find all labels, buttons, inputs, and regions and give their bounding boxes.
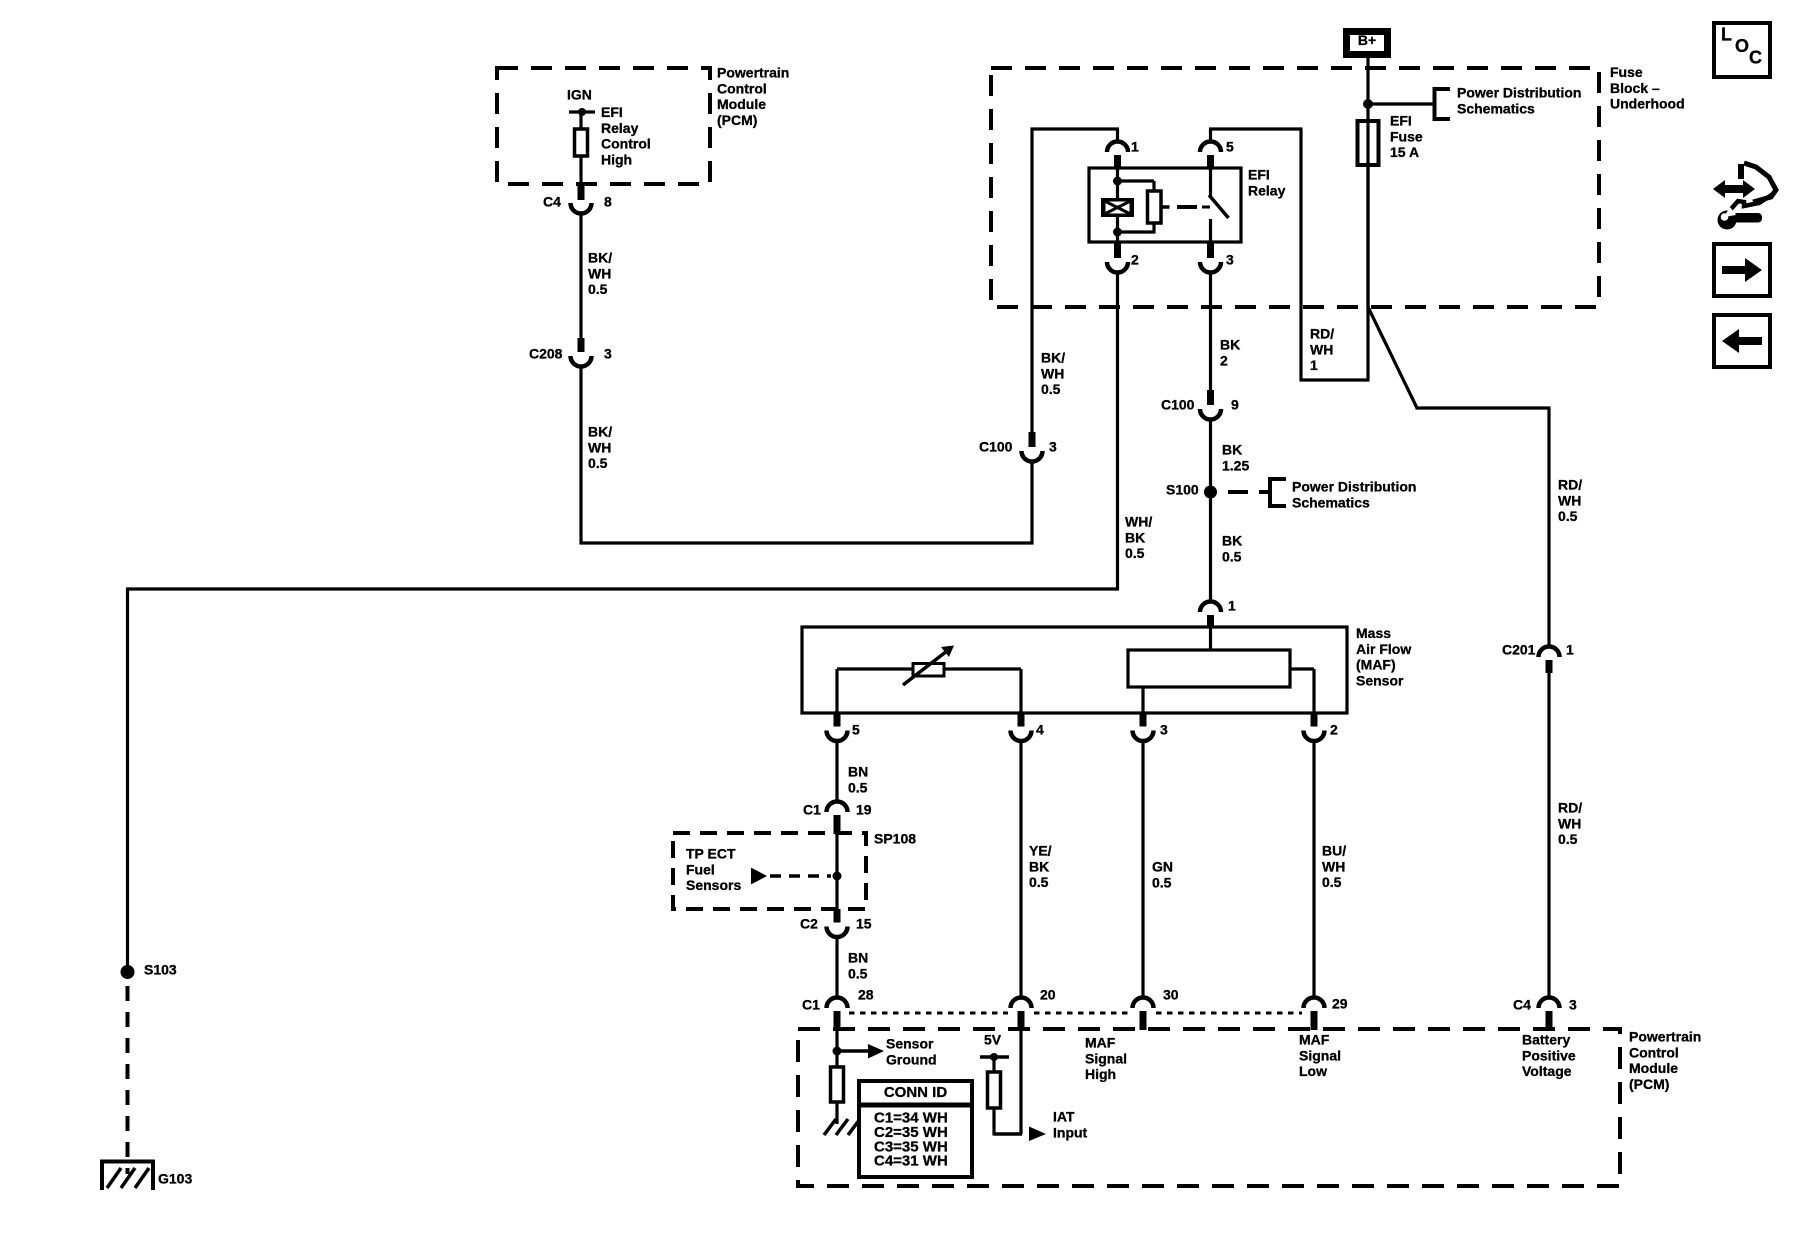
svg-text:Schematics: Schematics bbox=[1292, 494, 1370, 510]
svg-text:S100: S100 bbox=[1166, 482, 1199, 498]
svg-text:0.5: 0.5 bbox=[1322, 874, 1342, 890]
wire BU/WH 0.5 MAF pin2 to PCM pin 29 bbox=[1312, 741, 1315, 998]
svg-text:0.5: 0.5 bbox=[1222, 548, 1242, 564]
maf sensing element rectangle bbox=[1128, 650, 1290, 687]
svg-text:C1: C1 bbox=[802, 997, 820, 1013]
svg-text:Sensor: Sensor bbox=[1356, 672, 1404, 688]
svg-text:RD/: RD/ bbox=[1558, 800, 1582, 816]
svg-text:(PCM): (PCM) bbox=[717, 112, 757, 128]
svg-text:WH: WH bbox=[1558, 815, 1581, 831]
svg-text:30: 30 bbox=[1163, 987, 1179, 1003]
icon LOC navigation box bbox=[1714, 23, 1770, 77]
wire resistor to chassis ground bbox=[835, 1102, 838, 1124]
svg-text:0.5: 0.5 bbox=[1152, 874, 1172, 890]
svg-text:C2: C2 bbox=[800, 916, 818, 932]
resistor IAT pull-up (internal) bbox=[988, 1072, 1001, 1108]
svg-text:WH: WH bbox=[1322, 858, 1345, 874]
svg-text:GN: GN bbox=[1152, 859, 1173, 875]
svg-text:WH: WH bbox=[588, 265, 611, 281]
wire branch to Power Distribution reference bbox=[1368, 102, 1434, 105]
svg-text:15 A: 15 A bbox=[1390, 144, 1419, 160]
svg-text:1: 1 bbox=[1228, 598, 1236, 614]
pin relay terminal 2 bbox=[1114, 242, 1121, 258]
svg-text:MAF: MAF bbox=[1299, 1032, 1330, 1048]
svg-text:BK/: BK/ bbox=[588, 250, 612, 266]
wire WH/BK 0.5 from relay pin 2 bbox=[1116, 273, 1119, 590]
wire BK 0.5 S100 to MAF pin 1 bbox=[1209, 492, 1212, 602]
wire RD/WH 0.5 down to C201 bbox=[1547, 408, 1550, 647]
svg-text:Powertrain: Powertrain bbox=[1629, 1029, 1701, 1045]
svg-text:Powertrain: Powertrain bbox=[717, 65, 789, 81]
connector arc MAF pin 3 bbox=[1133, 731, 1154, 742]
splice S103 junction dot bbox=[121, 965, 135, 979]
wire MAF pin1 to sensing element bbox=[1209, 628, 1212, 650]
junction dot SP108 bbox=[833, 872, 842, 881]
component Mass Air Flow (MAF) Sensor box bbox=[802, 627, 1347, 713]
pin C208 male terminal bbox=[578, 338, 585, 352]
svg-text:C4=31 WH: C4=31 WH bbox=[874, 1153, 948, 1170]
wire RD/WH horizontal to right column bbox=[1416, 406, 1551, 409]
relay switch lower contact to pin 3 bbox=[1209, 219, 1212, 242]
ground chassis symbol (PCM internal) bbox=[824, 1119, 836, 1135]
svg-text:15: 15 bbox=[856, 916, 872, 932]
svg-text:EFI: EFI bbox=[601, 104, 623, 120]
svg-text:3: 3 bbox=[1049, 439, 1057, 455]
wire RD/WH 1 fuse to relay pin5 (U loop) bbox=[1366, 165, 1369, 380]
module Powertrain Control Module (PCM) top dashed box bbox=[497, 68, 710, 184]
svg-text:C100: C100 bbox=[979, 439, 1013, 455]
wire resistor to PCM edge bbox=[579, 156, 582, 185]
pin C100-9 male terminal bbox=[1207, 390, 1214, 405]
svg-text:0.5: 0.5 bbox=[588, 455, 608, 471]
svg-text:2: 2 bbox=[1330, 722, 1338, 738]
svg-text:1: 1 bbox=[1131, 139, 1139, 155]
svg-text:Signal: Signal bbox=[1085, 1050, 1127, 1066]
wire element to pin 2 (internal) bbox=[1290, 667, 1314, 670]
svg-text:0.5: 0.5 bbox=[1125, 545, 1145, 561]
pin MAF terminal 5 bbox=[834, 713, 841, 727]
pin C1-28 male terminal bbox=[834, 1011, 841, 1030]
connector C1 arc (pin 28) bbox=[827, 998, 848, 1009]
wire coil bottom to pin 2 bbox=[1116, 217, 1119, 242]
pin 29 male terminal bbox=[1311, 1011, 1318, 1030]
junction dot coil top bbox=[1113, 177, 1122, 186]
icon forward arrow box bbox=[1714, 244, 1770, 296]
svg-text:WH: WH bbox=[1041, 365, 1064, 381]
relay switch blade bbox=[1209, 195, 1229, 218]
relay coil (crossed box) symbol bbox=[1101, 198, 1134, 217]
svg-text:5V: 5V bbox=[984, 1032, 1002, 1048]
svg-text:9: 9 bbox=[1231, 397, 1239, 413]
reference dash from S100 bbox=[1228, 490, 1248, 494]
svg-text:BK/: BK/ bbox=[588, 424, 612, 440]
svg-text:0.5: 0.5 bbox=[588, 281, 608, 297]
svg-text:Underhood: Underhood bbox=[1610, 96, 1685, 112]
junction dot coil bottom bbox=[1113, 228, 1122, 237]
pin relay terminal 3 bbox=[1207, 242, 1214, 258]
svg-text:(MAF): (MAF) bbox=[1356, 657, 1396, 673]
svg-text:O: O bbox=[1735, 36, 1749, 56]
svg-text:BN: BN bbox=[848, 764, 868, 780]
pin C1-19 male terminal bbox=[834, 815, 841, 834]
connector C1 arc (pin 20) bbox=[1011, 998, 1032, 1009]
wire pin 20 internal drop bbox=[1019, 1030, 1022, 1134]
arrow IAT Input bbox=[1029, 1127, 1046, 1142]
svg-text:BN: BN bbox=[848, 950, 868, 966]
wire heater horizontal (internal) bbox=[837, 667, 1021, 670]
svg-text:0.5: 0.5 bbox=[1558, 508, 1578, 524]
svg-text:3: 3 bbox=[1569, 997, 1577, 1013]
wire dashed S103 to G103 bbox=[126, 986, 130, 1174]
svg-text:Air Flow: Air Flow bbox=[1356, 641, 1411, 657]
svg-text:BK: BK bbox=[1222, 533, 1242, 549]
svg-text:CONN ID: CONN ID bbox=[884, 1084, 948, 1101]
svg-text:Signal: Signal bbox=[1299, 1047, 1341, 1063]
svg-text:Block –: Block – bbox=[1610, 80, 1660, 96]
wire BK/WH 0.5 horizontal run to C100-3 bbox=[580, 541, 1034, 544]
wire armature bottom to coil bottom bbox=[1152, 223, 1155, 234]
wire heater left leg to pin 5 bbox=[835, 669, 838, 713]
svg-text:BK/: BK/ bbox=[1041, 350, 1065, 366]
wire sensor ground internal bbox=[835, 1030, 838, 1067]
splice pack SP108 dashed box bbox=[673, 833, 866, 909]
wire heater right leg to pin 4 bbox=[1019, 669, 1022, 713]
svg-text:Schematics: Schematics bbox=[1457, 100, 1535, 116]
svg-text:Input: Input bbox=[1053, 1124, 1088, 1140]
wire element to pin 3 (internal) bbox=[1141, 687, 1144, 713]
module Powertrain Control Module (PCM) bottom dashed box bbox=[798, 1029, 1620, 1186]
pin C4-3 male terminal bbox=[1546, 1011, 1553, 1030]
svg-text:C201: C201 bbox=[1502, 642, 1536, 658]
wire BK/WH 0.5 C4-8 to C208-3 bbox=[579, 214, 582, 340]
svg-text:EFI: EFI bbox=[1248, 167, 1270, 183]
arrow to TP ECT Fuel Sensors bbox=[751, 868, 767, 885]
wire riser to C100-3 connector bbox=[1030, 462, 1033, 544]
connector arc relay pin 3 bbox=[1200, 262, 1221, 273]
pin C100-3 male terminal bbox=[1029, 432, 1036, 447]
svg-text:C208: C208 bbox=[529, 346, 563, 362]
svg-text:0.5: 0.5 bbox=[1558, 831, 1578, 847]
connector C1 arc (pin 30) bbox=[1133, 998, 1154, 1009]
svg-text:1: 1 bbox=[1310, 357, 1318, 373]
wire relay pin1 loop (up-left-down) to C100-3 bbox=[1116, 129, 1119, 142]
junction dot sensor ground bbox=[833, 1047, 842, 1056]
svg-text:1.25: 1.25 bbox=[1222, 457, 1249, 473]
wire relay coil branch (internal) bbox=[1116, 169, 1119, 198]
relay linkage stub bbox=[1161, 205, 1170, 209]
svg-text:8: 8 bbox=[604, 194, 612, 210]
pin MAF terminal 4 bbox=[1018, 713, 1025, 727]
svg-text:Sensor: Sensor bbox=[886, 1036, 934, 1052]
svg-text:C: C bbox=[1749, 48, 1762, 68]
connector arc MAF pin 4 bbox=[1011, 731, 1032, 742]
connector arc MAF pin 1 bbox=[1200, 602, 1221, 613]
svg-text:BK: BK bbox=[1222, 442, 1242, 458]
power B+ battery terminal box bbox=[1347, 32, 1388, 55]
splice S100 junction dot bbox=[1204, 486, 1217, 499]
svg-text:Low: Low bbox=[1299, 1063, 1327, 1079]
svg-text:WH: WH bbox=[1558, 492, 1581, 508]
relay switch fixed contact from pin 5 bbox=[1209, 169, 1212, 196]
svg-text:4: 4 bbox=[1036, 722, 1044, 738]
svg-text:3: 3 bbox=[604, 346, 612, 362]
icon vehicle diagnostic (arrows, car, wrench) bbox=[1713, 180, 1755, 198]
wire BK/WH 0.5 C208-3 down bbox=[579, 367, 582, 544]
svg-text:BU/: BU/ bbox=[1322, 843, 1346, 859]
thermistor arrow bbox=[903, 651, 947, 685]
svg-text:0.5: 0.5 bbox=[848, 965, 868, 981]
junction dot at B+ branch bbox=[1363, 99, 1373, 109]
svg-text:C4: C4 bbox=[543, 194, 561, 210]
pin 30 male terminal bbox=[1140, 1011, 1147, 1030]
svg-text:20: 20 bbox=[1040, 987, 1056, 1003]
svg-text:YE/: YE/ bbox=[1029, 843, 1052, 859]
reference bracket Power Distribution (top) bbox=[1433, 87, 1437, 121]
svg-text:Fuel: Fuel bbox=[686, 861, 715, 877]
svg-text:5: 5 bbox=[1226, 139, 1234, 155]
wire RD/WH 0.5 C201 to PCM C4-3 bbox=[1547, 673, 1550, 998]
connector arc relay pin 2 bbox=[1107, 262, 1128, 273]
pin MAF terminal 2 bbox=[1311, 713, 1318, 727]
wire BK 1.25 C100-9 to S100 bbox=[1209, 420, 1212, 493]
svg-text:Control: Control bbox=[1629, 1044, 1679, 1060]
icon back arrow box bbox=[1714, 315, 1770, 367]
svg-text:G103: G103 bbox=[158, 1171, 192, 1187]
svg-text:B+: B+ bbox=[1358, 32, 1376, 48]
reference bracket Power Distribution (S100) bbox=[1259, 490, 1270, 494]
arrow Sensor Ground bbox=[837, 1049, 868, 1053]
connector arc MAF pin 2 bbox=[1304, 731, 1325, 742]
connector arc relay pin 1 bbox=[1107, 142, 1128, 153]
connector arc relay pin 5 bbox=[1200, 142, 1221, 153]
svg-text:Positive: Positive bbox=[1522, 1047, 1576, 1063]
svg-text:High: High bbox=[601, 151, 632, 167]
connector C1 arc (pin 19) bbox=[827, 802, 848, 813]
resistor EFI Relay Control High driver (inside PCM) bbox=[575, 129, 588, 156]
pin C2 male terminal bbox=[834, 909, 841, 923]
svg-text:Relay: Relay bbox=[601, 120, 639, 136]
svg-text:C1: C1 bbox=[803, 802, 821, 818]
connector C100 arc (pin 3) bbox=[1022, 451, 1043, 462]
pin MAF terminal 3 bbox=[1140, 713, 1147, 727]
relay linkage tick at blade bbox=[1202, 206, 1210, 209]
svg-text:L: L bbox=[1721, 25, 1732, 45]
wire YE/BK 0.5 MAF pin4 to PCM pin 20 bbox=[1019, 741, 1022, 998]
svg-text:Module: Module bbox=[717, 96, 766, 112]
svg-text:Mass: Mass bbox=[1356, 625, 1391, 641]
svg-text:WH: WH bbox=[1310, 341, 1333, 357]
node CONN ID table bbox=[859, 1081, 972, 1177]
svg-text:S103: S103 bbox=[144, 962, 177, 978]
svg-text:C4: C4 bbox=[1513, 997, 1531, 1013]
wire IGN to resistor bbox=[579, 112, 582, 129]
connector C201 arc bbox=[1539, 647, 1560, 658]
svg-text:Power Distribution: Power Distribution bbox=[1292, 479, 1416, 495]
svg-text:WH/: WH/ bbox=[1125, 514, 1152, 530]
svg-text:IGN: IGN bbox=[567, 87, 592, 103]
svg-text:TP ECT: TP ECT bbox=[686, 846, 736, 862]
svg-text:3: 3 bbox=[1226, 252, 1234, 268]
svg-text:SP108: SP108 bbox=[874, 831, 916, 847]
svg-text:High: High bbox=[1085, 1066, 1116, 1082]
pin PCM C4 male terminal bbox=[578, 184, 585, 200]
svg-text:EFI: EFI bbox=[1390, 113, 1412, 129]
svg-text:Control: Control bbox=[601, 136, 651, 152]
ground G103 symbol bbox=[100, 1160, 104, 1191]
svg-text:Module: Module bbox=[1629, 1060, 1678, 1076]
pin 20 male terminal bbox=[1018, 1011, 1025, 1030]
relay linkage dashed bbox=[1177, 205, 1197, 209]
svg-text:Fuse: Fuse bbox=[1390, 128, 1423, 144]
node IGN tick and junction bbox=[569, 110, 595, 113]
svg-text:Control: Control bbox=[717, 80, 767, 96]
svg-text:19: 19 bbox=[856, 802, 872, 818]
svg-text:WH: WH bbox=[588, 439, 611, 455]
thermistor body (variable resistor) bbox=[913, 664, 944, 677]
svg-text:MAF: MAF bbox=[1085, 1035, 1116, 1051]
svg-text:RD/: RD/ bbox=[1310, 326, 1334, 342]
svg-text:Power Distribution: Power Distribution bbox=[1457, 85, 1581, 101]
wire BK 2 from relay pin 3 bbox=[1209, 273, 1212, 391]
module Fuse Block - Underhood dashed box bbox=[991, 68, 1599, 307]
pin relay terminal 1 bbox=[1114, 155, 1121, 169]
resistor sensor ground (internal) bbox=[831, 1067, 844, 1102]
svg-text:1: 1 bbox=[1566, 642, 1574, 658]
connector C4 arc bbox=[571, 203, 592, 214]
wire GN 0.5 MAF pin3 to PCM pin 30 bbox=[1141, 741, 1144, 998]
svg-text:C100: C100 bbox=[1161, 397, 1195, 413]
wire relay pin5 loop (up-right-down) bbox=[1209, 129, 1212, 142]
wire coil top to armature bbox=[1118, 179, 1155, 182]
svg-text:Fuse: Fuse bbox=[1610, 64, 1643, 80]
wire BN 0.5 MAF pin5 to C1-19 bbox=[835, 741, 838, 802]
svg-text:0.5: 0.5 bbox=[1029, 874, 1049, 890]
svg-text:29: 29 bbox=[1332, 996, 1348, 1012]
wire through SP108 bbox=[835, 834, 838, 909]
svg-text:IAT: IAT bbox=[1053, 1109, 1075, 1125]
connector C4 arc (pin 3) bbox=[1539, 998, 1560, 1009]
svg-text:Sensors: Sensors bbox=[686, 877, 741, 893]
svg-text:Relay: Relay bbox=[1248, 182, 1286, 198]
wire WH/BK long run to S103 column bbox=[126, 587, 1119, 590]
svg-text:2: 2 bbox=[1220, 352, 1228, 368]
connector C2 arc (pin 15) bbox=[827, 927, 848, 938]
svg-text:BK: BK bbox=[1220, 337, 1240, 353]
fuse EFI Fuse 15 A bbox=[1358, 121, 1379, 165]
svg-text:3: 3 bbox=[1160, 722, 1168, 738]
svg-text:BK: BK bbox=[1125, 529, 1145, 545]
connector C208 arc bbox=[571, 356, 592, 367]
wire B+ down to fuse bbox=[1366, 55, 1369, 307]
svg-text:BK: BK bbox=[1029, 858, 1049, 874]
wire RD/WH diagonal leaving fuse block bbox=[1368, 307, 1417, 408]
pin relay terminal 5 bbox=[1207, 155, 1214, 169]
svg-text:2: 2 bbox=[1131, 252, 1139, 268]
connector face dotted line C1 bbox=[849, 1012, 1008, 1015]
pin C201 male terminal bbox=[1546, 660, 1553, 673]
svg-text:0.5: 0.5 bbox=[1041, 381, 1061, 397]
connector C100 arc (pin 9) bbox=[1200, 409, 1221, 420]
relay armature rectangle bbox=[1148, 191, 1162, 223]
svg-text:Voltage: Voltage bbox=[1522, 1063, 1572, 1079]
svg-text:(PCM): (PCM) bbox=[1629, 1076, 1669, 1092]
pin MAF terminal 1 bbox=[1207, 615, 1214, 628]
relay EFI Relay box bbox=[1089, 168, 1241, 242]
wire 5V resistor to IAT node bbox=[992, 1108, 995, 1136]
connector C1 arc (pin 29) bbox=[1304, 998, 1325, 1009]
svg-text:28: 28 bbox=[858, 987, 874, 1003]
svg-text:RD/: RD/ bbox=[1558, 477, 1582, 493]
wire BN 0.5 C2-15 to C1-28 bbox=[835, 937, 838, 998]
svg-text:0.5: 0.5 bbox=[848, 779, 868, 795]
svg-text:Battery: Battery bbox=[1522, 1032, 1570, 1048]
svg-text:Ground: Ground bbox=[886, 1051, 937, 1067]
svg-text:5: 5 bbox=[852, 722, 860, 738]
connector arc MAF pin 5 bbox=[827, 731, 848, 742]
wire WH/BK down far-left column bbox=[126, 589, 129, 966]
